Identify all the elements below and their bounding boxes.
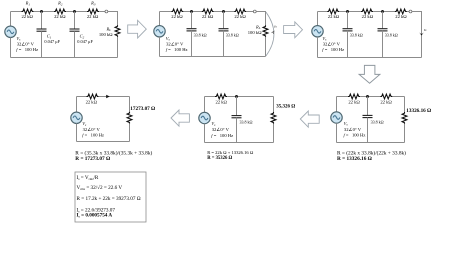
wire c6 left lower xyxy=(336,123,338,142)
wire c1 right lower xyxy=(117,37,119,58)
wire c5 top-left segment xyxy=(205,96,216,98)
resistor 22k c5 xyxy=(215,94,227,99)
svg-text:R = 35326 Ω: R = 35326 Ω xyxy=(207,156,232,161)
resistor 22k a c2 xyxy=(171,9,183,14)
wire c1 R2-R3 xyxy=(66,11,87,13)
wire c3 left lower xyxy=(317,37,319,58)
svg-text:32∠0° V: 32∠0° V xyxy=(166,42,184,47)
svg-text:22 kΩ: 22 kΩ xyxy=(234,14,246,19)
current arrow c4 xyxy=(106,95,110,98)
wire c5 left lower xyxy=(204,124,206,143)
wire c2 top-left segment xyxy=(160,11,172,13)
wire c1 cap2 lower xyxy=(74,31,76,57)
wire c4 bottom rail xyxy=(77,141,130,143)
svg-text:R = 22k Ω + 13326.16 Ω: R = 22k Ω + 13326.16 Ω xyxy=(207,150,254,155)
wire c2 bottom rail xyxy=(160,56,266,58)
wire c4 right upper xyxy=(129,97,131,112)
svg-text:33.8 kΩ: 33.8 kΩ xyxy=(371,119,384,124)
block arrow left A4 xyxy=(171,110,189,126)
wire c3 seg3 xyxy=(373,11,395,13)
block arrow right A1 xyxy=(128,20,147,38)
wire c3 bottom rail xyxy=(318,57,422,59)
svg-text:32∠0° V: 32∠0° V xyxy=(344,127,362,132)
wire c6 top-left segment xyxy=(337,96,349,98)
resistor 22k a c3 xyxy=(327,9,339,14)
svg-text:22 kΩ: 22 kΩ xyxy=(202,14,214,19)
wire c1 cap2 upper xyxy=(74,12,76,29)
wire c5 cap lower xyxy=(236,118,238,143)
wire c1 top-left segment xyxy=(11,11,22,13)
source Vs c4 xyxy=(71,112,82,123)
svg-text:33.8 kΩ: 33.8 kΩ xyxy=(240,119,253,124)
resistor RL c2 xyxy=(263,25,268,37)
capacitor Xc2 c3 xyxy=(378,29,388,31)
svg-text:22 kΩ: 22 kΩ xyxy=(171,14,183,19)
wire c3 R-terminal xyxy=(407,11,409,13)
wire c1 R1-R2 xyxy=(34,11,54,13)
svg-text:35,326 Ω: 35,326 Ω xyxy=(276,105,295,110)
svg-text:R = 17273.07 Ω: R = 17273.07 Ω xyxy=(75,156,110,162)
wire c1 R3-terminal xyxy=(99,11,105,13)
wire c2 seg4 xyxy=(246,11,253,13)
svg-text:22 kΩ: 22 kΩ xyxy=(215,99,227,104)
svg-text:100 kΩ: 100 kΩ xyxy=(248,30,262,35)
wire c2 cap2 lower xyxy=(223,31,225,57)
svg-text:33.8 kΩ: 33.8 kΩ xyxy=(385,32,398,37)
capacitor C2 xyxy=(70,29,80,31)
wire c4 left upper xyxy=(76,97,78,113)
capacitor Xc c6 xyxy=(363,115,373,117)
svg-text:22 kΩ: 22 kΩ xyxy=(87,14,99,19)
svg-text:22 kΩ: 22 kΩ xyxy=(86,99,98,104)
source Vs c1 xyxy=(5,26,16,37)
resistor R1 xyxy=(22,9,34,14)
svg-text:22 kΩ: 22 kΩ xyxy=(380,99,392,104)
resistor Req c6 xyxy=(402,112,407,124)
arrowhead on arc c2 xyxy=(272,31,274,34)
wire c2 left upper xyxy=(159,12,161,26)
wire c2 cap1 upper xyxy=(191,12,193,29)
capacitor Xc2 c2 xyxy=(219,29,229,31)
wire c3 right side xyxy=(412,12,422,58)
terminal c3 xyxy=(409,10,412,13)
svg-text:0.047 μF: 0.047 μF xyxy=(44,39,60,44)
wire c2 seg3 xyxy=(214,11,234,13)
wire c1 top-right corner xyxy=(108,12,118,26)
wire c2 cap1 lower xyxy=(191,31,193,57)
svg-text:22 kΩ: 22 kΩ xyxy=(395,14,407,19)
node c5 xyxy=(235,95,238,98)
wire c3 cap2 lower xyxy=(382,31,384,58)
wire c2 seg2 xyxy=(183,11,201,13)
wire c3 top-left segment xyxy=(318,11,328,13)
wire c3 cap2 upper xyxy=(382,12,384,29)
wire c2 cap2 upper xyxy=(223,12,225,29)
wire c2 top-right corner xyxy=(256,12,265,26)
svg-text:22 kΩ: 22 kΩ xyxy=(348,99,360,104)
svg-text:f = 100 Hz: f = 100 Hz xyxy=(322,47,344,52)
source Vs c2 xyxy=(154,26,165,37)
wire c4 right lower xyxy=(129,123,131,141)
svg-text:22 kΩ: 22 kΩ xyxy=(21,14,33,19)
svg-text:33.8 kΩ: 33.8 kΩ xyxy=(226,32,239,37)
svg-text:22 kΩ: 22 kΩ xyxy=(54,14,66,19)
resistor 22k b c3 xyxy=(361,9,373,14)
wire c3 seg2 xyxy=(339,11,361,13)
wire c6 left upper xyxy=(336,97,338,112)
wire c1 bottom rail xyxy=(11,57,118,59)
terminal c1 xyxy=(105,10,108,13)
wire c5 cap upper xyxy=(236,97,238,116)
svg-text:R = 13326.16 Ω: R = 13326.16 Ω xyxy=(337,156,372,162)
svg-text:f = 100 Hz: f = 100 Hz xyxy=(166,47,188,52)
svg-text:f = 100 Hz: f = 100 Hz xyxy=(16,47,38,52)
block arrow right A2 xyxy=(284,22,303,38)
resistor Req c5 xyxy=(271,112,276,124)
resistor R3 xyxy=(87,9,99,14)
wire c6 cap upper xyxy=(367,97,369,116)
wire c1 left lower xyxy=(10,38,12,58)
wire c4 top-left segment xyxy=(77,96,87,98)
svg-text:0.047 μF: 0.047 μF xyxy=(77,39,93,44)
removal arc c2 xyxy=(266,12,274,56)
node c3 B xyxy=(381,10,384,13)
resistor 22k c4 xyxy=(87,94,99,99)
source Vs c6 xyxy=(331,112,342,123)
wire c5 bottom rail xyxy=(205,142,274,144)
svg-text:Is = Vrms/R: Is = Vrms/R xyxy=(77,175,99,181)
svg-text:33.8 kΩ: 33.8 kΩ xyxy=(194,32,207,37)
block arrow down A3 xyxy=(359,65,380,83)
svg-text:Is = 0.0005754 A: Is = 0.0005754 A xyxy=(77,213,113,219)
capacitor Xc c5 xyxy=(232,116,242,118)
wire c2 left lower xyxy=(159,37,161,57)
svg-text:13326.16 Ω: 13326.16 Ω xyxy=(406,108,431,114)
wire c5 right upper xyxy=(273,97,275,112)
resistor 22k b c2 xyxy=(202,9,214,14)
node c2 B xyxy=(222,10,225,13)
wire c6 cap lower xyxy=(367,118,369,143)
svg-text:f = 100 Hz: f = 100 Hz xyxy=(211,133,233,138)
svg-text:32∠0° V: 32∠0° V xyxy=(17,42,35,47)
wire c6 right upper xyxy=(404,97,406,113)
current arrowhead Is c3 xyxy=(419,32,424,35)
svg-text:22 kΩ: 22 kΩ xyxy=(328,14,340,19)
svg-text:33.8 kΩ: 33.8 kΩ xyxy=(350,32,363,37)
wire c1 cap1 lower xyxy=(41,31,43,57)
wire c3 cap1 lower xyxy=(347,31,349,58)
svg-text:32∠0° V: 32∠0° V xyxy=(323,42,341,47)
svg-text:f = 100 Hz: f = 100 Hz xyxy=(344,132,366,137)
wire c2 right lower xyxy=(265,37,267,57)
calc box frame xyxy=(75,172,146,222)
wire c6 top-right segment xyxy=(392,96,404,98)
resistor 22k c c2 xyxy=(234,9,246,14)
node c1 B xyxy=(73,10,76,13)
wire c3 cap1 upper xyxy=(347,12,349,29)
wire c5 left upper xyxy=(204,97,206,113)
node c2 A xyxy=(190,10,193,13)
wire c6 right lower xyxy=(404,124,406,143)
wire c3 left upper xyxy=(317,12,319,26)
wire c5 right lower xyxy=(273,124,275,143)
svg-text:22 kΩ: 22 kΩ xyxy=(362,14,374,19)
svg-text:100 kΩ: 100 kΩ xyxy=(99,32,113,37)
source Vs c5 xyxy=(199,112,210,123)
resistor 22k b c6 xyxy=(380,94,392,99)
svg-text:R = 17.2k + 22k = 39273.07 Ω: R = 17.2k + 22k = 39273.07 Ω xyxy=(77,196,141,202)
capacitor Xc1 c3 xyxy=(343,29,353,31)
resistor 22k c c3 xyxy=(395,9,407,14)
resistor RL c1 xyxy=(115,25,120,37)
terminal c2 xyxy=(253,10,256,13)
svg-text:32∠0° V: 32∠0° V xyxy=(83,127,101,132)
wire c4 left lower xyxy=(76,124,78,142)
resistor R2 xyxy=(54,9,66,14)
svg-text:f = 100 Hz: f = 100 Hz xyxy=(82,133,104,138)
svg-text:17273.07 Ω: 17273.07 Ω xyxy=(130,106,155,112)
wire c6 bottom rail xyxy=(337,142,405,144)
wire c5 top-right segment xyxy=(227,96,273,98)
wire c4 top-right segment xyxy=(99,96,130,98)
svg-text:32∠0° V: 32∠0° V xyxy=(212,127,230,132)
source Vs c3 xyxy=(312,26,323,37)
node c6 xyxy=(366,95,369,98)
wire c1 left upper xyxy=(10,12,12,27)
wire c1 cap1 upper xyxy=(41,12,43,29)
capacitor Xc1 c2 xyxy=(187,29,197,31)
resistor Req c4 xyxy=(127,112,132,124)
capacitor C1 xyxy=(37,29,47,31)
node c3 A xyxy=(346,10,349,13)
node c1 A xyxy=(40,10,43,13)
resistor 22k a c6 xyxy=(348,94,360,99)
wire c6 mid segment xyxy=(360,96,380,98)
block arrow left A5 xyxy=(300,111,319,127)
